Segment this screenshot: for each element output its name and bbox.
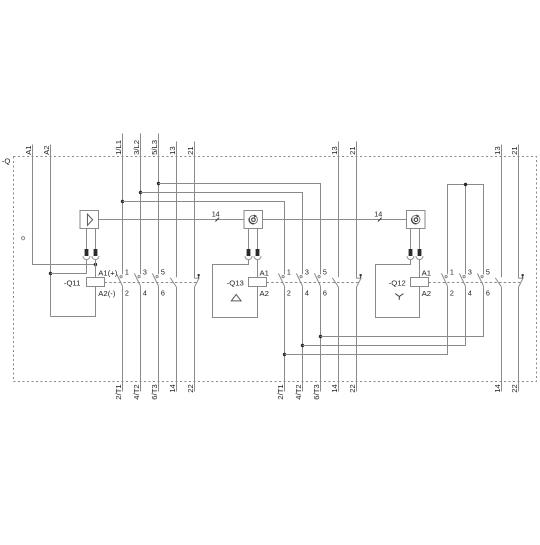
wire Q12 pole 5 to 6/T3	[321, 286, 484, 336]
wire terminal A1	[33, 145, 96, 265]
contactor coil Q13	[249, 278, 267, 287]
svg-text:21: 21	[348, 146, 357, 155]
wire L2 to Q13 pole	[141, 193, 303, 275]
svg-text:14: 14	[493, 384, 502, 393]
auxiliary NO contact 13-14 Q11	[170, 278, 176, 287]
wire 14 Q11	[176, 287, 178, 391]
main contact 3-4 Q13	[296, 273, 302, 286]
plug contact Q11 right	[92, 229, 99, 260]
svg-text:2: 2	[125, 289, 129, 298]
wire 4/T2 Q13	[302, 286, 304, 391]
wire L1 to Q13 pole	[123, 202, 285, 275]
svg-text:-Q: -Q	[2, 157, 11, 166]
wire 4/T2 Q11	[140, 286, 142, 391]
svg-text:14: 14	[168, 384, 177, 393]
contactor coil Q11	[87, 278, 105, 287]
wire marker slash	[215, 218, 219, 222]
svg-text:22: 22	[186, 384, 195, 393]
svg-text:2/T1: 2/T1	[114, 384, 123, 399]
node L3 branch	[157, 182, 160, 185]
main contact 5-6 Q13	[314, 273, 320, 286]
svg-text:6: 6	[486, 289, 490, 298]
node coil A1 junction	[94, 263, 97, 266]
wire 2/T1 Q13	[284, 286, 286, 391]
wire coil A1 Q11	[95, 260, 97, 278]
svg-text:A2: A2	[260, 289, 269, 298]
wire 22 Q12	[518, 287, 520, 392]
svg-text:2: 2	[287, 289, 291, 298]
svg-text:21: 21	[186, 146, 195, 155]
svg-text:A1: A1	[260, 268, 269, 277]
svg-text:13: 13	[493, 146, 502, 155]
svg-text:5: 5	[486, 267, 490, 276]
mechanical link Q11	[105, 282, 198, 284]
svg-text:5/L3: 5/L3	[150, 140, 159, 155]
svg-text:21: 21	[510, 146, 519, 155]
svg-text:2: 2	[450, 289, 454, 298]
wire 5/L3 Q11	[158, 134, 160, 275]
svg-text:5: 5	[323, 267, 327, 276]
enclosure dashed border	[14, 157, 537, 382]
main contact 3-4 Q11	[134, 273, 140, 286]
mechanical link Q12	[429, 282, 522, 284]
wire module pin to coil A2 loop Q12	[376, 260, 420, 318]
svg-text:5: 5	[161, 267, 165, 276]
wire control link 14 Q11 to Q13	[99, 219, 245, 221]
svg-text:1/L1: 1/L1	[114, 140, 123, 155]
mirror contact marker 21-22 Q13	[360, 274, 362, 278]
wire 14 Q12	[501, 287, 503, 391]
mirror contact marker 21-22 Q11	[198, 274, 200, 278]
main contact 5-6 Q12	[477, 273, 483, 286]
svg-text:1: 1	[450, 267, 454, 276]
node T1 junction	[283, 353, 286, 356]
wire 21 Q12	[518, 145, 520, 279]
svg-text:3: 3	[468, 267, 472, 276]
svg-text:4: 4	[305, 289, 309, 298]
svg-text:A1: A1	[422, 268, 431, 277]
wire 2/T1 Q11	[122, 286, 124, 391]
svg-text:A2: A2	[422, 289, 431, 298]
svg-text:22: 22	[348, 384, 357, 393]
delta symbol Q13	[231, 295, 241, 301]
node T2 junction	[301, 344, 304, 347]
node L2 branch	[139, 191, 142, 194]
wire 14 Q13	[338, 287, 340, 391]
node star bridge junction	[464, 183, 467, 186]
svg-text:A2: A2	[42, 145, 51, 154]
svg-text:3: 3	[143, 267, 147, 276]
wire coil return Q11	[51, 287, 96, 317]
svg-text:3/L2: 3/L2	[132, 140, 141, 155]
auxiliary NC contact 21-22 Q11	[195, 278, 200, 287]
svg-text:2/T1: 2/T1	[276, 384, 285, 399]
svg-text:22: 22	[510, 384, 519, 393]
svg-text:13: 13	[168, 146, 177, 155]
svg-text:4/T2: 4/T2	[294, 384, 303, 399]
wire 13 Q11	[176, 142, 178, 278]
wire module pin to A2	[51, 260, 87, 274]
wire star bridge Q12	[448, 185, 484, 275]
wire coil A1 Q13	[257, 260, 259, 278]
wire L3 to Q13 pole	[159, 184, 321, 275]
plug contact Q13 left	[245, 229, 252, 260]
terminal circle	[22, 237, 25, 240]
wire 22 Q13	[356, 287, 358, 392]
main contact 1-2 Q11	[116, 273, 122, 286]
auxiliary NO contact 13-14 Q13	[332, 278, 338, 287]
svg-text:-Q11: -Q11	[64, 278, 81, 287]
wire terminal A2	[50, 145, 52, 317]
plug contact Q13 right	[254, 229, 261, 260]
wire 6/T3 Q13	[320, 286, 322, 391]
main contact 1-2 Q12	[441, 273, 447, 286]
wire marker slash second	[378, 218, 382, 222]
svg-text:6/T3: 6/T3	[312, 384, 321, 399]
svg-text:6: 6	[323, 289, 327, 298]
contactor coil Q12	[411, 278, 429, 287]
plug contact Q11 left	[83, 229, 90, 260]
function module U1 on Q11	[80, 211, 99, 229]
node T3 junction	[319, 335, 322, 338]
mechanical link Q13	[267, 282, 359, 284]
wire 13 Q13	[338, 142, 340, 278]
wire Q12 pole 3 to 4/T2	[303, 286, 466, 345]
svg-text:4/T2: 4/T2	[132, 384, 141, 399]
wire module pin to coil A2 loop Q13	[213, 260, 258, 318]
svg-text:13: 13	[330, 146, 339, 155]
svg-text:6: 6	[161, 289, 165, 298]
wire 22 Q11	[194, 287, 196, 392]
main contact 3-4 Q12	[459, 273, 465, 286]
svg-text:A2(-): A2(-)	[98, 289, 116, 298]
wire 1/L1 Q11	[122, 134, 124, 275]
wire 21 Q13	[356, 142, 358, 279]
star symbol Q12	[395, 294, 403, 300]
wire 13 Q12	[501, 145, 503, 278]
svg-text:14: 14	[212, 209, 220, 218]
auxiliary NC contact 21-22 Q12	[519, 278, 524, 287]
mirror contact marker 21-22 Q12	[522, 274, 524, 278]
wire 21 Q11	[194, 142, 196, 279]
plug contact Q12 left	[407, 229, 414, 260]
svg-text:4: 4	[468, 289, 472, 298]
wire control link 14 Q13 to Q12	[263, 219, 407, 221]
wire coil A1 Q12	[419, 260, 421, 278]
svg-text:3: 3	[305, 267, 309, 276]
wire Q12 pole 1 to 2/T1	[285, 286, 448, 354]
svg-text:-Q13: -Q13	[227, 278, 244, 287]
node L1 branch	[121, 200, 124, 203]
svg-text:A1: A1	[24, 145, 33, 154]
svg-text:A1(+): A1(+)	[98, 269, 117, 278]
auxiliary NO contact 13-14 Q12	[495, 278, 501, 287]
plug contact Q12 right	[416, 229, 423, 260]
svg-text:6/T3: 6/T3	[150, 384, 159, 399]
svg-text:14: 14	[374, 209, 382, 218]
node A2 junction	[49, 272, 52, 275]
svg-text:-Q12: -Q12	[389, 278, 406, 287]
function module U3 on Q12	[407, 211, 426, 229]
wire star bridge center	[465, 185, 467, 275]
wire 3/L2 Q11	[140, 134, 142, 275]
svg-text:1: 1	[125, 267, 129, 276]
function module U2 on Q13	[244, 211, 263, 229]
svg-text:4: 4	[143, 289, 147, 298]
main contact 5-6 Q11	[152, 273, 158, 286]
svg-text:14: 14	[330, 384, 339, 393]
main contact 1-2 Q13	[278, 273, 284, 286]
auxiliary NC contact 21-22 Q13	[357, 278, 362, 287]
svg-text:1: 1	[287, 267, 291, 276]
wire 6/T3 Q11	[158, 286, 160, 391]
